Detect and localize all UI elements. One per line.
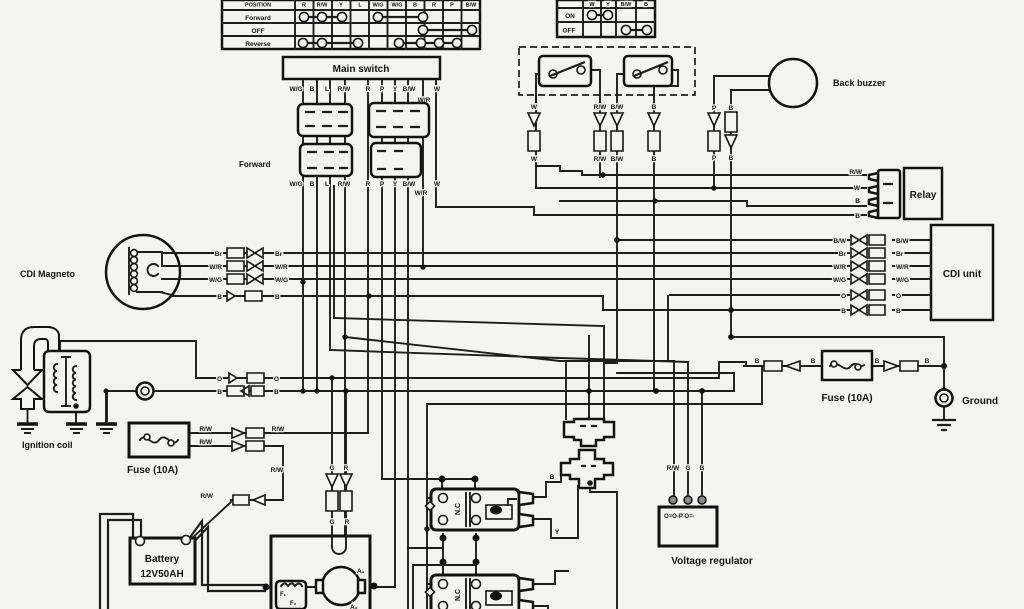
svg-text:Voltage regulator: Voltage regulator xyxy=(671,556,753,567)
svg-text:B: B xyxy=(755,358,760,365)
svg-text:W/G: W/G xyxy=(833,277,846,284)
svg-text:W/R: W/R xyxy=(209,264,222,271)
svg-text:W: W xyxy=(434,86,441,93)
svg-text:Br: Br xyxy=(896,251,904,258)
svg-text:B: B xyxy=(310,181,315,188)
svg-text:P: P xyxy=(380,181,385,188)
svg-text:Y: Y xyxy=(339,3,343,9)
svg-text:B/W: B/W xyxy=(621,2,633,8)
svg-text:B/W: B/W xyxy=(466,3,478,9)
svg-text:B: B xyxy=(310,86,315,93)
svg-text:W/R: W/R xyxy=(896,264,909,271)
svg-text:R/W: R/W xyxy=(199,426,213,433)
svg-text:G: G xyxy=(329,519,334,526)
svg-text:R: R xyxy=(302,3,306,9)
svg-text:F₂: F₂ xyxy=(290,601,297,607)
svg-text:R/W: R/W xyxy=(849,169,863,176)
svg-text:B: B xyxy=(811,358,816,365)
svg-text:B: B xyxy=(217,294,222,301)
svg-text:W: W xyxy=(531,156,538,163)
svg-text:N.C: N.C xyxy=(455,589,462,601)
svg-text:OFF: OFF xyxy=(563,28,576,35)
svg-text:Y: Y xyxy=(393,181,398,188)
svg-text:O: O xyxy=(274,376,279,383)
svg-text:B/W: B/W xyxy=(611,156,625,163)
svg-text:G: G xyxy=(685,465,690,472)
svg-text:W/R: W/R xyxy=(833,264,846,271)
svg-text:O=O-P O=-: O=O-P O=- xyxy=(664,514,695,520)
svg-text:B: B xyxy=(875,358,880,365)
svg-text:B/W: B/W xyxy=(611,104,625,111)
svg-text:Back buzzer: Back buzzer xyxy=(833,78,886,88)
svg-text:O: O xyxy=(896,293,901,300)
svg-text:Y: Y xyxy=(555,529,560,536)
svg-text:P: P xyxy=(712,105,717,112)
svg-text:POSITION: POSITION xyxy=(245,3,271,9)
svg-text:W: W xyxy=(531,104,538,111)
svg-text:CDI unit: CDI unit xyxy=(943,269,982,280)
svg-text:Fuse (10A): Fuse (10A) xyxy=(127,465,178,476)
svg-text:A₂: A₂ xyxy=(350,604,358,609)
svg-text:P: P xyxy=(380,86,385,93)
svg-text:12V50AH: 12V50AH xyxy=(140,569,183,580)
svg-text:R/W: R/W xyxy=(594,156,608,163)
svg-text:B: B xyxy=(729,155,734,162)
svg-text:W/G: W/G xyxy=(209,277,222,284)
svg-text:B: B xyxy=(700,465,705,472)
svg-text:B: B xyxy=(644,2,648,8)
svg-text:Forward: Forward xyxy=(245,15,271,22)
svg-text:O: O xyxy=(841,293,846,300)
svg-text:B: B xyxy=(896,308,901,315)
svg-text:P: P xyxy=(450,3,454,9)
svg-text:ON: ON xyxy=(565,13,575,20)
svg-text:R: R xyxy=(366,86,371,93)
svg-text:R: R xyxy=(344,465,349,472)
svg-text:R/W: R/W xyxy=(271,467,285,474)
svg-text:R/W: R/W xyxy=(200,493,214,500)
svg-text:W: W xyxy=(854,185,861,192)
svg-text:B/W: B/W xyxy=(403,181,417,188)
svg-text:B: B xyxy=(274,389,279,396)
svg-text:W/G: W/G xyxy=(896,277,909,284)
svg-text:W/G: W/G xyxy=(290,86,303,93)
svg-text:Br: Br xyxy=(839,251,847,258)
svg-text:R: R xyxy=(366,181,371,188)
svg-text:G: G xyxy=(329,465,334,472)
svg-text:L: L xyxy=(325,86,329,93)
svg-text:R/W: R/W xyxy=(338,181,352,188)
svg-text:B: B xyxy=(217,389,222,396)
svg-text:B: B xyxy=(550,474,555,481)
svg-text:W: W xyxy=(434,181,441,188)
svg-text:OFF: OFF xyxy=(252,28,265,35)
svg-text:L: L xyxy=(325,181,329,188)
svg-text:W/R: W/R xyxy=(415,190,428,197)
svg-text:R/W: R/W xyxy=(317,3,329,9)
svg-text:B/W: B/W xyxy=(403,86,417,93)
svg-text:P: P xyxy=(712,155,717,162)
svg-text:A₁: A₁ xyxy=(357,568,365,575)
svg-text:Fuse (10A): Fuse (10A) xyxy=(821,393,872,404)
svg-text:Relay: Relay xyxy=(910,190,937,201)
svg-text:Br: Br xyxy=(215,251,223,258)
svg-text:R/W: R/W xyxy=(272,426,286,433)
svg-text:R: R xyxy=(345,519,350,526)
svg-text:B: B xyxy=(855,198,860,205)
svg-text:W/R: W/R xyxy=(275,264,288,271)
svg-text:B: B xyxy=(652,104,657,111)
svg-text:B: B xyxy=(841,308,846,315)
svg-text:B: B xyxy=(925,358,930,365)
svg-text:Main switch: Main switch xyxy=(333,64,390,75)
svg-text:B/W: B/W xyxy=(896,238,910,245)
svg-text:B: B xyxy=(652,156,657,163)
svg-text:W/G: W/G xyxy=(275,277,288,284)
svg-text:Y: Y xyxy=(606,2,610,8)
svg-text:R/W: R/W xyxy=(594,104,608,111)
svg-text:F₁: F₁ xyxy=(280,592,287,598)
svg-text:W/G: W/G xyxy=(290,181,303,188)
svg-text:B: B xyxy=(275,294,280,301)
svg-text:R/W: R/W xyxy=(667,465,681,472)
svg-text:B: B xyxy=(729,105,734,112)
svg-text:Y: Y xyxy=(393,86,398,93)
svg-text:W/G: W/G xyxy=(392,3,403,9)
svg-text:B: B xyxy=(855,213,860,220)
svg-text:Ground: Ground xyxy=(962,396,998,407)
svg-text:O: O xyxy=(217,376,222,383)
svg-text:Ignition coil: Ignition coil xyxy=(22,440,73,450)
svg-text:W: W xyxy=(589,2,595,8)
svg-text:R: R xyxy=(432,3,436,9)
svg-text:Br: Br xyxy=(275,251,283,258)
svg-text:R/W: R/W xyxy=(338,86,352,93)
svg-text:W/G: W/G xyxy=(373,3,384,9)
svg-text:N.C: N.C xyxy=(455,503,462,515)
svg-text:Forward: Forward xyxy=(239,160,271,169)
svg-text:Reverse: Reverse xyxy=(245,41,271,48)
svg-text:CDI Magneto: CDI Magneto xyxy=(20,269,76,279)
svg-text:B: B xyxy=(413,3,417,9)
svg-text:B/W: B/W xyxy=(833,238,847,245)
svg-text:Battery: Battery xyxy=(145,554,180,565)
svg-text:R/W: R/W xyxy=(199,439,213,446)
